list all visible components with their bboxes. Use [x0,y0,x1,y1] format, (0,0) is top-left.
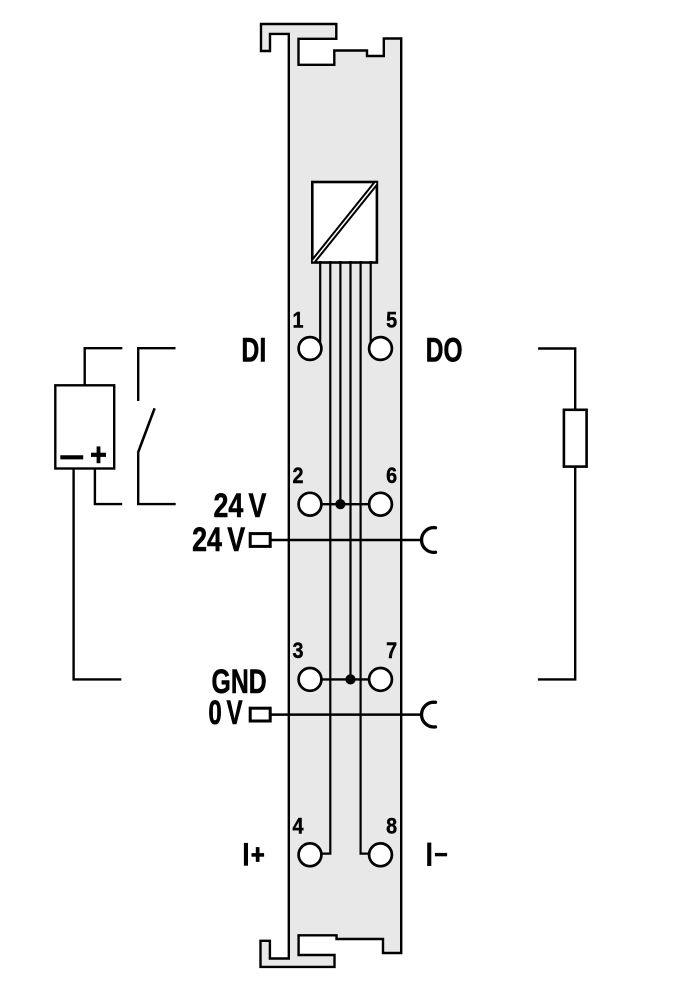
wire battery minus to GND [74,469,122,680]
wire w6 (to pin 5) [370,261,372,343]
junction dot 24V [335,499,345,509]
wire battery plus to 24V [95,469,122,504]
battery plus sign [91,453,106,457]
converter box U1 [312,182,377,263]
resistor R1 (load) [564,410,587,467]
socket arc 0V [422,702,436,727]
terminal 1 [299,337,322,360]
module body outline [261,24,402,967]
wire battery top to DI [85,348,123,385]
svg-text:24 V: 24 V [192,520,245,559]
terminal 5 [369,337,392,360]
junction dot GND [345,674,355,684]
svg-text:3: 3 [292,639,303,663]
switch S1 top wire [138,348,175,401]
terminal 7 [369,668,392,691]
wire 0V field supply line [271,713,422,716]
wire w4 (to GND junction) [349,261,351,679]
wire w3 (to 24V junction) [339,261,341,504]
wire w2 (to pin 4) [322,261,330,854]
socket arc 24V [422,528,436,553]
wire 24V field supply line [271,539,422,542]
terminal 6 [369,493,392,516]
connector tag 0V [250,708,270,721]
wire w1 (to pin 1) [319,261,321,343]
svg-text:DI: DI [241,331,266,369]
switch S1 bottom wire [138,453,176,504]
svg-text:7: 7 [386,639,397,663]
svg-text:0 V: 0 V [208,694,242,732]
wire terminal 3 to terminal 7 [321,678,369,680]
terminal 4 [299,843,322,866]
label I- [427,843,431,866]
terminal 3 [299,668,322,691]
switch S1 blade [138,408,155,453]
isolation diagonal (double line) [313,183,376,261]
wire load bottom (GND) [538,467,575,680]
svg-text:2: 2 [292,464,303,488]
wire w5 (to pin 8) [361,261,369,854]
wire terminal 2 to terminal 6 [321,503,369,505]
connector tag 24V [250,534,270,547]
svg-text:5: 5 [386,309,397,333]
svg-text:1: 1 [292,309,303,333]
battery minus sign [60,455,83,459]
label I+ [244,843,248,866]
terminal 8 [369,843,392,866]
svg-text:8: 8 [386,814,397,838]
wire load top (DO) [538,349,575,409]
terminal 2 [299,493,322,516]
svg-text:6: 6 [386,464,397,488]
svg-text:DO: DO [426,331,463,369]
battery G1 box [55,385,114,468]
svg-text:4: 4 [292,814,303,838]
